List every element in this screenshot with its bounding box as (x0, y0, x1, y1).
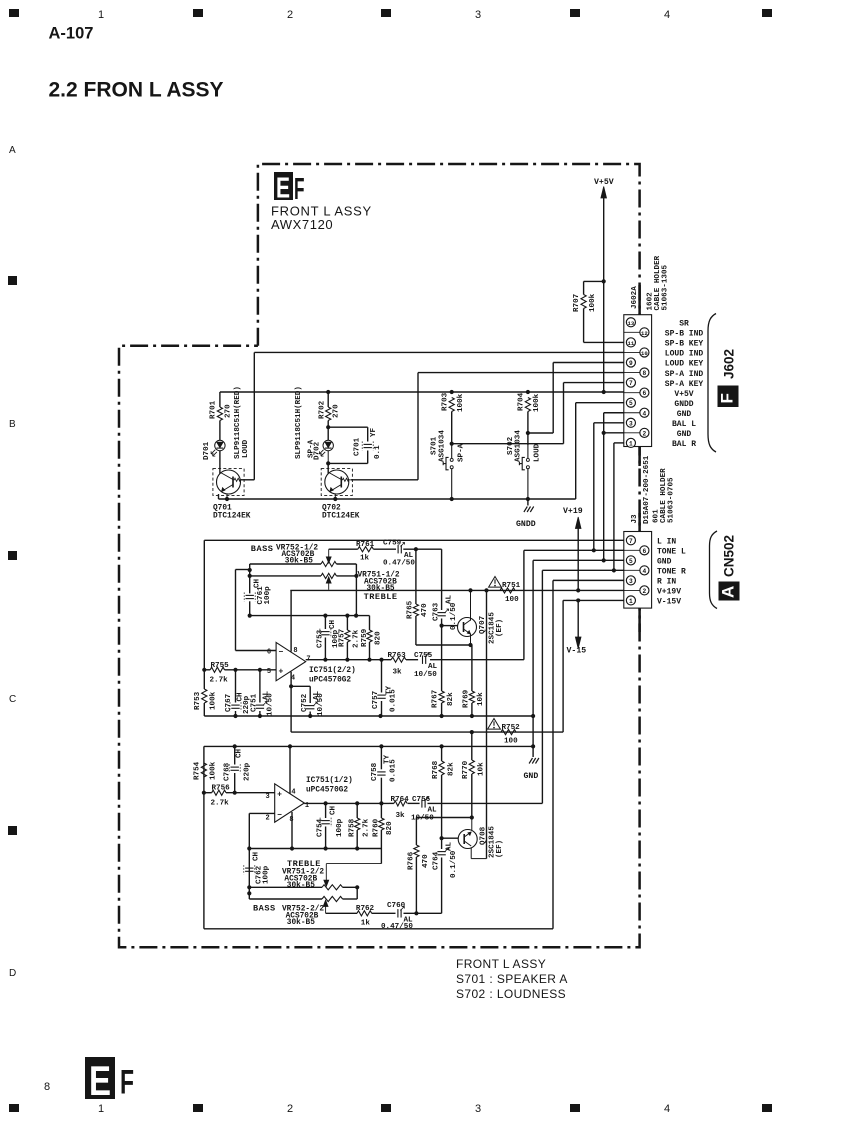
wire lower minus branch (247, 813, 275, 899)
wire V+5V supply line (602, 198, 606, 394)
svg-text:6: 6 (643, 390, 647, 397)
wire V-15 row to op-amps (291, 730, 563, 734)
resistor R707 100k (573, 281, 624, 342)
svg-text:C752: C752 (301, 693, 309, 712)
svg-text:uPC4570G2: uPC4570G2 (309, 677, 351, 685)
resistor R762 1k (356, 905, 375, 928)
svg-text:F: F (718, 393, 737, 403)
svg-text:0.015: 0.015 (389, 759, 397, 782)
switch S702 ASG1034 LOUD (507, 430, 542, 499)
svg-text:51063-0705: 51063-0705 (668, 477, 676, 523)
svg-text:R703: R703 (442, 392, 450, 411)
svg-text:3: 3 (629, 420, 633, 427)
switch S701 ASG1034 SP-A (431, 430, 466, 499)
resistor R702 270 (319, 392, 341, 440)
label CN502 vertical (721, 535, 736, 577)
capacitor C754 100p CH (317, 803, 345, 848)
svg-text:R751: R751 (502, 582, 521, 590)
top ruler numbers (98, 9, 670, 21)
left margin row letters (9, 145, 16, 979)
svg-text:2: 2 (643, 588, 647, 595)
resistor R770 10k (462, 732, 485, 817)
transistor Q707 2SC1845 (458, 590, 504, 647)
wire Q707 emitter row (416, 644, 472, 646)
CN502 pin name labels (657, 538, 686, 607)
svg-text:GND: GND (677, 430, 692, 439)
capacitor C752 10/50 AL (301, 686, 325, 716)
svg-text:270: 270 (333, 404, 341, 418)
svg-text:R704: R704 (518, 392, 526, 411)
svg-text:BAL L: BAL L (672, 420, 696, 429)
resistor R758 2.7k (349, 803, 371, 848)
wire CN502 pin5 GND (531, 558, 624, 757)
capacitor C764 0.1/50 AL (433, 836, 459, 913)
capacitor C753 100p CH (317, 616, 341, 660)
svg-text:GND: GND (677, 410, 692, 419)
svg-text:DTC124EK: DTC124EK (322, 513, 360, 521)
wire op-amp pin4 V- column (289, 672, 310, 732)
svg-text:5: 5 (629, 558, 633, 565)
svg-text:8: 8 (44, 1081, 50, 1093)
svg-text:R707: R707 (573, 293, 581, 312)
svg-text:F: F (120, 1064, 134, 1102)
wire J602 pin10 to Q701 base (241, 352, 624, 479)
capacitor C761 100p CH (244, 578, 272, 617)
wire J602 pin2 GND (604, 432, 624, 434)
svg-text:6: 6 (643, 548, 647, 555)
svg-text:100k: 100k (589, 293, 597, 312)
svg-text:LOUD IND: LOUD IND (665, 350, 704, 359)
wire upper channel ground bus (204, 714, 533, 718)
resistor R756 2.7k (204, 785, 275, 808)
svg-text:GND: GND (657, 558, 672, 567)
svg-text:10/50: 10/50 (317, 693, 325, 716)
svg-text:AWX7120: AWX7120 (271, 217, 333, 232)
svg-text:100p: 100p (262, 865, 270, 884)
svg-text:IC751(1/2): IC751(1/2) (306, 777, 353, 785)
wire Q707 base node (440, 624, 458, 628)
top ruler index squares (9, 9, 772, 17)
svg-text:R763: R763 (388, 652, 407, 660)
svg-text:TONE L: TONE L (657, 548, 686, 557)
svg-text:S701 : SPEAKER A: S701 : SPEAKER A (456, 972, 568, 986)
svg-text:C760: C760 (387, 902, 406, 910)
svg-text:D701: D701 (203, 441, 211, 460)
svg-text:IC751(2/2): IC751(2/2) (309, 667, 356, 675)
svg-text:30k-B5: 30k-B5 (287, 919, 315, 927)
svg-text:51063-1305: 51063-1305 (662, 264, 670, 310)
svg-text:4: 4 (643, 410, 647, 417)
svg-text:C757: C757 (372, 690, 380, 709)
wire lower output row (304, 801, 542, 805)
svg-text:R766: R766 (408, 851, 416, 870)
resistor R752 100 (501, 724, 520, 746)
svg-text:100k: 100k (533, 393, 541, 412)
svg-text:A: A (9, 145, 16, 156)
svg-text:3k: 3k (393, 669, 403, 677)
svg-text:ASG1034: ASG1034 (515, 430, 523, 462)
svg-text:SP-B IND: SP-B IND (665, 330, 704, 339)
svg-text:2.7k: 2.7k (353, 629, 361, 648)
wire lower ground rail (204, 744, 533, 748)
svg-text:R753: R753 (194, 691, 202, 710)
svg-text:1: 1 (98, 9, 104, 21)
resistor R768 82k (432, 746, 456, 838)
connector CN502 pins (624, 536, 649, 605)
capacitor C755 10/50 AL (414, 652, 438, 679)
capacitor C756 10/50 AL (411, 796, 437, 823)
resistor R763 3k (387, 652, 406, 677)
svg-text:TREBLE: TREBLE (364, 592, 398, 602)
svg-text:4: 4 (291, 789, 295, 797)
capacitor C760 0.47/50 AL (381, 902, 413, 931)
resistor R755 2.7k (202, 662, 276, 685)
label J602 vertical (721, 349, 736, 379)
capacitor C758 0.015 TY (371, 746, 397, 803)
svg-text:10/50: 10/50 (414, 671, 437, 679)
svg-text:R757: R757 (339, 628, 347, 647)
capacitor C759 0.47/50 AL (383, 540, 442, 568)
svg-text:R701: R701 (210, 400, 218, 419)
wire op-amp output row upper (306, 658, 524, 662)
wire lower op-amp pin8 feed (291, 812, 293, 849)
svg-text:11: 11 (628, 340, 635, 347)
op-amp IC751(2/2) uPC4570G2 (267, 642, 356, 684)
svg-text:3: 3 (265, 793, 269, 801)
wire feedback row upper (250, 614, 370, 618)
svg-text:GNDD: GNDD (674, 400, 693, 409)
resistor R764 3k (389, 796, 409, 820)
svg-text:CH: CH (253, 851, 261, 861)
page header title A-107 (49, 25, 94, 43)
label BASS lower (253, 904, 324, 928)
label J3 D15A07-200-2651 (631, 455, 651, 524)
wire V+5V bus (220, 390, 624, 394)
wire tone upper input rail (203, 540, 205, 670)
svg-text:ASG1034: ASG1034 (438, 430, 446, 462)
svg-text:J602A: J602A (631, 286, 639, 309)
svg-text:uPC4570G2: uPC4570G2 (306, 787, 348, 795)
svg-text:LOUD: LOUD (242, 439, 250, 458)
wire op-amp minus input branch (236, 568, 277, 651)
resistor R701 270 (210, 392, 233, 421)
svg-text:1: 1 (98, 1103, 104, 1115)
svg-text:C755: C755 (414, 652, 433, 660)
wire CN502 pin1 V-15V (563, 598, 624, 732)
svg-text:1k: 1k (360, 555, 370, 563)
svg-text:C759: C759 (383, 540, 402, 548)
wire bass treble left column (248, 564, 252, 593)
grid ref box F for J602 (718, 386, 739, 408)
svg-text:CH: CH (235, 748, 243, 758)
left margin squares (8, 276, 17, 835)
svg-text:3k: 3k (396, 812, 406, 820)
svg-text:6: 6 (267, 649, 271, 657)
svg-text:E: E (276, 172, 290, 204)
svg-text:82k: 82k (448, 762, 456, 776)
svg-text:100: 100 (504, 738, 518, 746)
svg-text:CH: CH (329, 619, 337, 629)
svg-text:2.2 FRON L ASSY: 2.2 FRON L ASSY (49, 79, 224, 102)
svg-text:R759: R759 (361, 628, 369, 647)
svg-text:Q702: Q702 (322, 505, 341, 513)
svg-text:9: 9 (629, 360, 633, 367)
svg-text:J3: J3 (631, 514, 639, 524)
schematic E-F block logo (274, 172, 305, 206)
svg-text:D15A07-200-2651: D15A07-200-2651 (643, 455, 651, 524)
svg-text:0.47/50: 0.47/50 (381, 923, 413, 931)
svg-text:C756: C756 (412, 796, 431, 804)
svg-text:V-15V: V-15V (657, 598, 681, 607)
transistor Q702 DTC124EK (321, 463, 360, 520)
capacitor C751 10/50 AL (251, 668, 275, 716)
svg-text:C751: C751 (251, 693, 259, 712)
resistor R751 100 (500, 582, 521, 604)
svg-text:0.1: 0.1 (374, 445, 382, 459)
potentiometer VR751-2/2 treble lower (249, 864, 381, 890)
svg-text:1: 1 (629, 598, 633, 605)
svg-text:R752: R752 (502, 724, 521, 732)
svg-text:2.7k: 2.7k (211, 800, 230, 808)
label SLP9118C51H(RED) for D701 (234, 386, 242, 459)
capacitor C762 100p CH (244, 851, 271, 884)
wire CN502 pin3 R IN (553, 580, 624, 928)
svg-text:+: + (277, 791, 282, 800)
ground GND lower (524, 758, 539, 781)
potentiometer VR751-1/2 ACS702B 30k-B5 TREBLE (250, 572, 400, 602)
svg-text:4: 4 (664, 9, 670, 21)
capacitor C763 0.1/50 AL (433, 549, 459, 691)
svg-text:SR: SR (679, 320, 689, 329)
warning triangle R751 (489, 577, 502, 588)
warning triangle R752 (488, 719, 501, 730)
svg-text:R767: R767 (432, 689, 440, 708)
resistor R754 100k (194, 761, 218, 794)
svg-text:100p: 100p (336, 818, 344, 837)
wire CN502 pin2 V+19V (290, 588, 624, 592)
svg-text:5: 5 (267, 668, 271, 676)
svg-text:C763: C763 (433, 602, 441, 621)
resistor R757 2.7k (339, 616, 361, 660)
connector J602 body (624, 315, 652, 447)
svg-text:SLP9118C51H(RED): SLP9118C51H(RED) (234, 386, 242, 459)
svg-text:8: 8 (643, 370, 647, 377)
svg-text:AL: AL (446, 841, 454, 851)
capacitor C701 0.1 YF (328, 427, 382, 463)
resistor R704 100k (518, 392, 542, 433)
CN502 brace (710, 531, 718, 609)
svg-text:12: 12 (641, 330, 648, 337)
resistor R703 100k (442, 392, 466, 443)
svg-text:+: + (279, 668, 284, 677)
svg-text:100k: 100k (210, 691, 218, 710)
svg-text:GNDD: GNDD (516, 520, 536, 529)
svg-text:3: 3 (475, 1103, 481, 1115)
svg-text:SP-A KEY: SP-A KEY (665, 380, 704, 389)
svg-text:DTC124EK: DTC124EK (213, 513, 251, 521)
label AWX7120 (271, 217, 333, 232)
svg-text:1: 1 (629, 440, 633, 447)
transistor Q701 DTC124EK (213, 451, 251, 521)
page number 8 (44, 1081, 50, 1093)
wire J602 pin9 to S702 (528, 363, 624, 434)
svg-text:10/50: 10/50 (411, 815, 434, 823)
svg-text:C753: C753 (317, 629, 325, 648)
svg-text:C754: C754 (317, 818, 325, 837)
svg-text:R769: R769 (462, 689, 470, 708)
note S701 SPEAKER A (456, 972, 568, 986)
wire CN502 pin6 TONE L (524, 548, 624, 659)
svg-text:0.1/50: 0.1/50 (450, 850, 458, 878)
wire Q708 emitter to V+19 row (486, 590, 488, 858)
svg-text:82k: 82k (447, 692, 455, 706)
wire CN502 pin7 L IN to tone box (204, 539, 624, 541)
svg-text:(EF): (EF) (496, 840, 504, 858)
label BASS upper (251, 544, 274, 554)
svg-text:AL: AL (428, 807, 438, 815)
resistor R766 470 (408, 818, 431, 914)
svg-text:470: 470 (421, 603, 429, 617)
svg-text:V+5V: V+5V (594, 178, 614, 187)
svg-text:R762: R762 (356, 905, 375, 913)
svg-text:(EF): (EF) (496, 619, 504, 637)
svg-text:4: 4 (643, 568, 647, 575)
connector CN502 body (624, 532, 652, 609)
svg-text:SP-B KEY: SP-B KEY (665, 340, 704, 349)
border solid segments at connectors (638, 285, 641, 632)
svg-text:2.7k: 2.7k (363, 818, 371, 837)
svg-text:BASS: BASS (251, 544, 274, 554)
resistor R759 820 (361, 616, 383, 660)
svg-text:10k: 10k (477, 692, 485, 706)
resistor R765 470 (407, 549, 430, 645)
svg-text:30k-B5: 30k-B5 (287, 882, 315, 890)
op-amp IC751(1/2) uPC4570G2 (265, 777, 352, 824)
svg-text:SLP9118C51H(RED): SLP9118C51H(RED) (295, 386, 303, 459)
svg-text:YF: YF (370, 427, 378, 437)
svg-text:820: 820 (374, 631, 382, 645)
svg-text:L IN: L IN (657, 538, 676, 547)
svg-text:C768: C768 (223, 762, 231, 781)
capacitor C757 0.015 TY (372, 660, 398, 716)
wire lower left edge (203, 746, 205, 928)
label 1602 CABLE HOLDER 51063-1305 (647, 255, 670, 310)
svg-text:2: 2 (287, 9, 293, 21)
note FRONT L ASSY bottom (456, 957, 546, 971)
wire R766 collector row (416, 815, 474, 819)
svg-text:A: A (719, 586, 738, 598)
capacitor C767 220p CH (225, 668, 251, 716)
svg-text:AL: AL (428, 663, 438, 671)
svg-text:R758: R758 (349, 818, 357, 837)
wire J602 pin4 down to CN502 pin5 line (602, 413, 624, 561)
svg-text:LOUD KEY: LOUD KEY (665, 360, 704, 369)
svg-text:F: F (294, 172, 305, 206)
wire lower op-amp pin4 V- feed (289, 746, 291, 793)
J602 brace (708, 314, 716, 453)
svg-text:S702 : LOUDNESS: S702 : LOUDNESS (456, 987, 566, 1001)
svg-text:CH: CH (329, 805, 337, 815)
wire lower wiper row (326, 911, 442, 915)
section heading 2.2 FRON L ASSY (49, 79, 224, 102)
transistor Q708 2SC1845 (458, 818, 504, 859)
wire bass pot right column (355, 564, 357, 616)
svg-text:V+19: V+19 (563, 507, 583, 516)
svg-text:470: 470 (422, 854, 430, 868)
svg-text:SP-A: SP-A (308, 439, 316, 458)
svg-text:4: 4 (664, 1103, 670, 1115)
wire op-amp pin8 V+ feed (290, 590, 292, 651)
svg-text:R761: R761 (356, 541, 375, 549)
resistor R767 82k (432, 689, 456, 716)
svg-text:100p: 100p (264, 586, 272, 605)
svg-text:0.47/50: 0.47/50 (383, 560, 415, 568)
svg-text:10k: 10k (477, 762, 485, 776)
resistor R760 820 (373, 803, 395, 863)
wire lower bottom edge (204, 928, 553, 930)
label LOUD for D701 (242, 439, 250, 458)
svg-text:GND: GND (524, 772, 539, 781)
svg-text:V+19V: V+19V (657, 588, 681, 597)
svg-text:V-15: V-15 (567, 647, 587, 656)
svg-text:8: 8 (293, 647, 297, 655)
label 601 CABLE HOLDER 51063-0705 (653, 468, 676, 523)
svg-text:R702: R702 (319, 400, 327, 419)
label SLP9118C51H(RED) for D702 (295, 386, 303, 459)
assembly dash-dot border (119, 164, 640, 947)
grid ref box A for CN502 (719, 582, 740, 601)
svg-text:BAL R: BAL R (672, 440, 696, 449)
svg-text:R760: R760 (373, 818, 381, 837)
svg-text:0.015: 0.015 (390, 689, 398, 712)
svg-text:TONE R: TONE R (657, 568, 686, 577)
svg-text:C764: C764 (433, 851, 441, 870)
svg-text:CN502: CN502 (721, 535, 736, 577)
wire J602 pin7 to S701 (452, 383, 624, 444)
connector J602 pins (624, 318, 649, 448)
svg-text:A-107: A-107 (49, 25, 94, 43)
svg-text:Q701: Q701 (213, 505, 232, 513)
svg-text:100k: 100k (210, 761, 218, 780)
capacitor C768 220p CH (223, 746, 251, 792)
svg-text:220p: 220p (244, 762, 252, 781)
svg-text:C767: C767 (225, 693, 233, 712)
svg-text:D: D (9, 968, 16, 979)
power arrow V-15 (567, 600, 587, 655)
svg-text:2.7k: 2.7k (210, 677, 229, 685)
svg-text:R756: R756 (212, 785, 231, 793)
svg-text:FRONT L ASSY: FRONT L ASSY (456, 957, 546, 971)
svg-text:E: E (89, 1057, 111, 1104)
label FRONT L ASSY (271, 204, 372, 219)
svg-text:V+5V: V+5V (674, 390, 693, 399)
svg-text:2: 2 (265, 815, 269, 823)
svg-text:B: B (9, 419, 16, 430)
svg-text:J602: J602 (721, 349, 736, 379)
potentiometer VR752-1/2 ACS702B 30k-B5 (250, 545, 357, 567)
J602 pin name labels (665, 320, 704, 450)
svg-text:C758: C758 (371, 762, 379, 781)
svg-text:R755: R755 (211, 662, 230, 670)
wire CN502 pin4 TONE R (542, 568, 623, 803)
svg-text:5: 5 (629, 400, 633, 407)
resistor R769 10k (462, 645, 485, 716)
wire lower feedback row (249, 846, 381, 850)
svg-text:2: 2 (287, 1103, 293, 1115)
svg-text:3: 3 (629, 578, 633, 585)
svg-text:R770: R770 (462, 760, 470, 779)
label TREBLE lower (282, 859, 324, 890)
